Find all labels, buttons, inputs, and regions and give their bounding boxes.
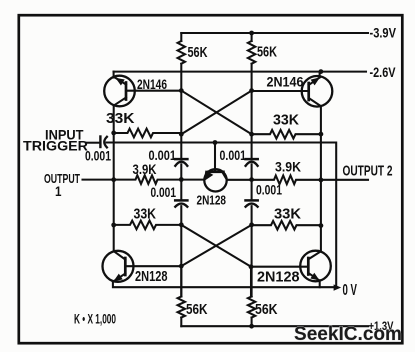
svg-text:-2.6V: -2.6V <box>370 65 396 80</box>
transistor Q4 2N128 bottom-right <box>300 251 331 282</box>
svg-text:0 V: 0 V <box>343 282 358 299</box>
resistor R7 33K lower-left <box>114 221 182 230</box>
wire cross-coupling upper X1 <box>181 91 251 135</box>
transistor Q3 2N128 bottom-left <box>103 251 134 282</box>
wire base of Q4 <box>251 266 308 268</box>
resistor R3 33K upper-left <box>114 129 182 138</box>
svg-text:2N146: 2N146 <box>137 76 167 92</box>
svg-text:0.001: 0.001 <box>85 149 111 164</box>
wire Q4 emitter stub <box>319 280 321 287</box>
svg-text:33K: 33K <box>106 111 135 127</box>
node junction 10 <box>111 177 116 182</box>
node junction 19 <box>249 264 254 269</box>
wire left column <box>113 105 115 251</box>
transistor Q5 2N128 center <box>204 143 227 192</box>
svg-text:0.001: 0.001 <box>256 183 282 198</box>
resistor R10 56K bottom-right <box>250 267 252 297</box>
node junction 18 <box>179 264 184 269</box>
wire trigger bus line <box>107 143 337 288</box>
wire output 1 lead <box>83 179 114 181</box>
resistor R2 56K top-right <box>251 33 253 41</box>
node junction 12 <box>249 177 254 182</box>
wire left cap rail <box>180 91 182 159</box>
svg-text:OUTPUT: OUTPUT <box>44 171 80 186</box>
svg-text:K • X 1,000: K • X 1,000 <box>74 312 116 327</box>
wire emitter 0V line <box>113 282 336 288</box>
node junction 17 <box>319 223 324 228</box>
svg-text:33K: 33K <box>274 207 302 223</box>
capacitor C2 0.001 upper-left <box>175 158 187 161</box>
svg-text:56K: 56K <box>257 45 277 61</box>
node junction 15 <box>179 222 184 227</box>
node junction 11 <box>179 177 184 182</box>
svg-text:OUTPUT 2: OUTPUT 2 <box>343 164 393 180</box>
resistor R6 3.9K right <box>227 176 368 185</box>
svg-text:0.001: 0.001 <box>151 185 177 200</box>
svg-text:2N146: 2N146 <box>267 74 304 90</box>
node junction 13 <box>319 178 324 183</box>
svg-text:3.9K: 3.9K <box>133 162 157 177</box>
svg-text:2N128: 2N128 <box>135 269 168 285</box>
node junction 2 <box>319 69 324 74</box>
node junction 1 <box>249 31 254 36</box>
wire base of Q1 <box>126 90 181 92</box>
wire cross-coupling upper X2 <box>181 91 251 135</box>
node junction 5 <box>111 131 116 136</box>
resistor R4 33K upper-right <box>252 130 321 139</box>
svg-text:56K: 56K <box>255 302 278 318</box>
svg-text:0.001: 0.001 <box>220 148 247 163</box>
svg-text:TRIGGER: TRIGGER <box>23 139 88 154</box>
capacitor C5 0.001 lower-right <box>246 199 258 202</box>
svg-text:-3.9V: -3.9V <box>370 26 397 41</box>
node junction 14 <box>111 223 116 228</box>
svg-text:56K: 56K <box>188 45 208 61</box>
svg-text:SeekIC.com: SeekIC.com <box>294 324 402 345</box>
wire right column <box>320 106 322 251</box>
wire base of Q2 <box>252 90 309 92</box>
node junction 4 <box>249 88 254 93</box>
node junction 7 <box>249 132 254 137</box>
resistor R8 33K lower-right <box>252 221 321 230</box>
node junction 16 <box>249 222 254 227</box>
wire input lead <box>86 142 100 144</box>
node junction 8 <box>319 132 324 137</box>
node junction 20 <box>249 324 254 329</box>
transistor Q1 2N146 top-left <box>104 72 135 107</box>
svg-text:0.001: 0.001 <box>149 148 177 163</box>
svg-text:56K: 56K <box>186 302 208 318</box>
capacitor C1 0.001 input <box>99 137 101 148</box>
wire -3.9V rail <box>181 32 368 34</box>
wire right cap rail <box>251 91 253 159</box>
node junction 6 <box>179 132 184 137</box>
svg-text:1: 1 <box>55 183 62 199</box>
resistor R5 3.9K left <box>114 175 205 184</box>
svg-text:2N128: 2N128 <box>257 269 300 286</box>
svg-text:2N128: 2N128 <box>197 194 227 208</box>
wire base of Q3 <box>125 265 181 267</box>
resistor R9 56K bottom-left <box>180 266 182 296</box>
svg-text:3.9K: 3.9K <box>275 160 301 175</box>
wire -2.6V rail <box>114 71 367 73</box>
resistor R1 56K top-left <box>180 33 182 41</box>
svg-text:33K: 33K <box>273 113 300 129</box>
wire bottom +1.3V rail <box>181 325 368 327</box>
node 0V arrow <box>334 284 342 290</box>
transistor Q2 2N146 top-right <box>302 72 333 107</box>
svg-text:33K: 33K <box>134 207 157 223</box>
wire cross-coupling lower X4 <box>181 225 251 266</box>
capacitor C4 0.001 lower-left <box>175 199 187 202</box>
wire cross-coupling lower X3 <box>181 225 251 267</box>
capacitor C3 0.001 upper-right <box>246 158 258 161</box>
node junction 9 <box>213 140 218 145</box>
node junction 3 <box>179 88 184 93</box>
